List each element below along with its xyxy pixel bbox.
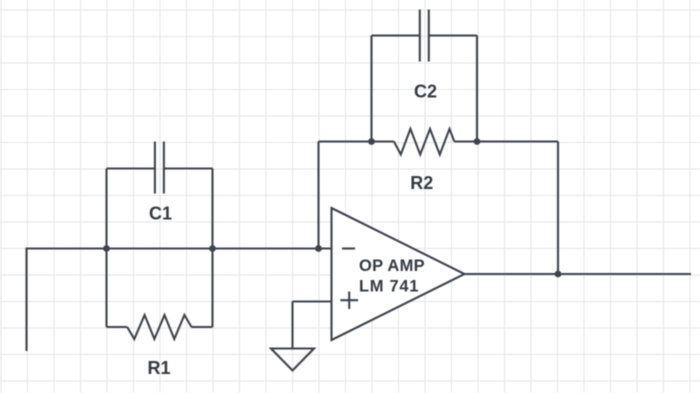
svg-text:LM 741: LM 741 xyxy=(359,277,419,295)
ground xyxy=(271,349,314,371)
wire C2 right vertical xyxy=(476,36,478,142)
node junction output xyxy=(555,271,562,278)
wire R2 left stub xyxy=(319,140,372,142)
resistor R2 xyxy=(372,129,478,155)
wire output xyxy=(465,273,692,275)
wire feedback left drop xyxy=(317,142,319,249)
wire R2 right to output xyxy=(477,142,558,275)
resistor R1 xyxy=(107,315,213,339)
svg-text:C2: C2 xyxy=(414,82,437,102)
op-amp plus input symbol xyxy=(340,292,358,310)
svg-text:R1: R1 xyxy=(147,358,170,378)
wire C1 left vertical xyxy=(105,169,107,328)
wire main input line to op-amp xyxy=(107,247,332,249)
wire C1 right vertical xyxy=(211,169,213,328)
node junction R2 left xyxy=(368,138,375,145)
capacitor C2 xyxy=(372,10,478,62)
wire C2 left vertical xyxy=(370,36,372,142)
node junction inverting input xyxy=(315,245,322,252)
node junction R2 right xyxy=(474,138,481,145)
capacitor C1 xyxy=(107,142,213,194)
wire non-inverting input xyxy=(293,300,332,302)
svg-text:C1: C1 xyxy=(149,204,172,224)
node junction C1 right xyxy=(209,245,216,252)
svg-text:R2: R2 xyxy=(410,173,433,193)
svg-text:OP AMP: OP AMP xyxy=(359,257,425,275)
wire ground drop xyxy=(291,302,293,349)
node junction input xyxy=(103,245,110,252)
label OP AMP LM 741 xyxy=(359,257,425,295)
op-amp U1 xyxy=(332,208,465,340)
wire input stub xyxy=(27,249,107,352)
op-amp minus input symbol xyxy=(342,247,355,249)
